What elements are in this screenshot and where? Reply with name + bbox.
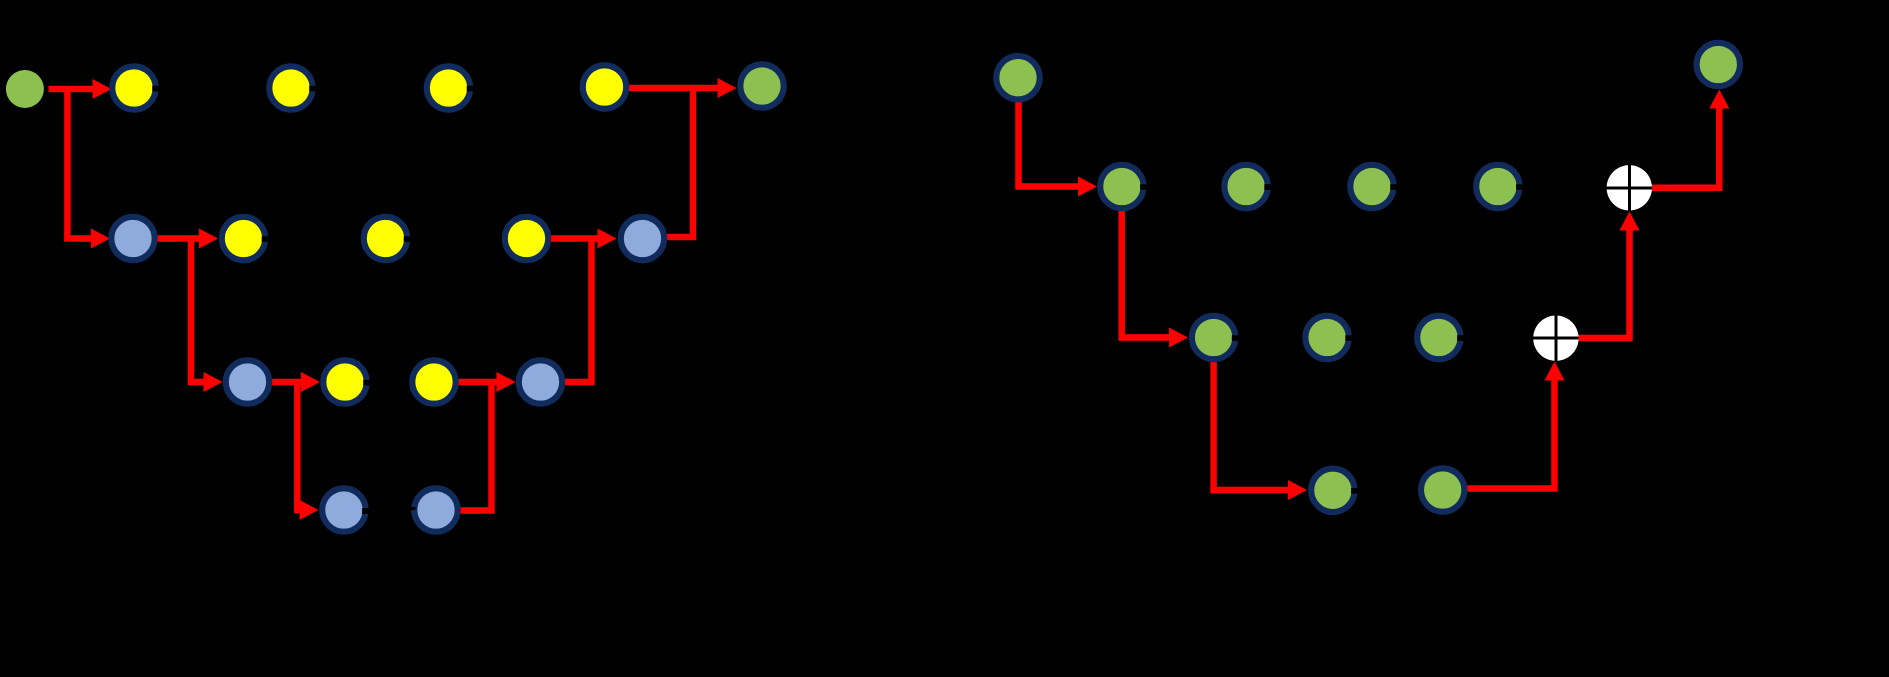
node x0: plain green input (left row1) xyxy=(6,70,44,108)
node g0: green input (right row1) xyxy=(996,56,1039,99)
node g2: green (right row2 c2) xyxy=(1224,165,1271,208)
wire: right row4 to adder2 xyxy=(1465,362,1565,489)
wire: row1 yellow to output green xyxy=(629,78,737,98)
wire: right input down to row2 xyxy=(1019,98,1098,197)
node out: green output (right top) xyxy=(1697,43,1740,86)
node d3,1: blue (left row4 c2) xyxy=(411,488,458,531)
wire: branch x0 down to d-node row2 xyxy=(67,86,110,249)
node s0,2: yellow (left row1 c3) xyxy=(427,66,474,109)
node d2,0: blue (left row3 c1) xyxy=(226,360,269,403)
node d3,0: blue (left row4 c1) xyxy=(322,488,369,531)
node s0,3: yellow (left row1 c4) xyxy=(583,65,626,108)
wire: right row3 down to row4 xyxy=(1214,359,1307,500)
adder node 1: white circle-plus (right row2) xyxy=(1607,165,1652,210)
node g9: green (right row4 c2) xyxy=(1421,468,1464,511)
node s0,1: yellow (left row1 c2) xyxy=(269,66,316,109)
node s2,1: yellow (left row3 c3) xyxy=(412,360,455,403)
wire: row2 yellow to row2 blue2 xyxy=(551,229,617,249)
wire: row3 blue2 up to row2 join xyxy=(565,239,592,383)
wire: row3 blue to row3 yellow xyxy=(272,372,320,392)
node d1,0: blue (left row2 c1) xyxy=(111,217,154,260)
node d1,1: blue (left row2 c5) xyxy=(621,217,664,260)
wire: input x0 to s0 (left row1) xyxy=(49,79,112,99)
wire: row4 blue2 up to row3 join xyxy=(461,382,492,511)
node s0,0: yellow (left row1 c1) xyxy=(112,66,159,109)
wire: branch row3 down to row4 blue xyxy=(297,382,318,520)
node g3: green (right row2 c3) xyxy=(1350,165,1397,208)
wire: adder1 to output green xyxy=(1650,90,1729,188)
node s1,1: yellow (left row2 c3) xyxy=(364,217,411,260)
node g7: green (right row3 c3) xyxy=(1417,316,1464,359)
node s2,0: yellow (left row3 c2) xyxy=(323,360,370,403)
node y0: green output (left row1) xyxy=(740,64,783,107)
node g6: green (right row3 c2) xyxy=(1305,316,1352,359)
wire: row3 yellow to row3 blue2 xyxy=(458,372,516,392)
node g4: green (right row2 c4) xyxy=(1476,165,1523,208)
wire: adder2 to adder1 xyxy=(1576,212,1640,339)
wire: right row2 down to row3 xyxy=(1122,208,1188,348)
wire: branch row2 down to row3 blue xyxy=(191,239,223,393)
node d2,1: blue (left row3 c4) xyxy=(519,360,562,403)
node g5: green (right row3 c1) xyxy=(1192,316,1239,359)
node g1: green (right row2 c1) xyxy=(1100,165,1147,208)
node s1,0: yellow (left row2 c2) xyxy=(222,217,269,260)
adder node 2: white circle-plus (right row3) xyxy=(1533,316,1578,361)
node g8: green (right row4 c1) xyxy=(1311,469,1358,512)
wire: row2 blue2 up to row1 join xyxy=(667,88,693,237)
wire: row2 blue to row2 yellow xyxy=(158,229,219,249)
node s1,2: yellow (left row2 c4) xyxy=(505,217,548,260)
